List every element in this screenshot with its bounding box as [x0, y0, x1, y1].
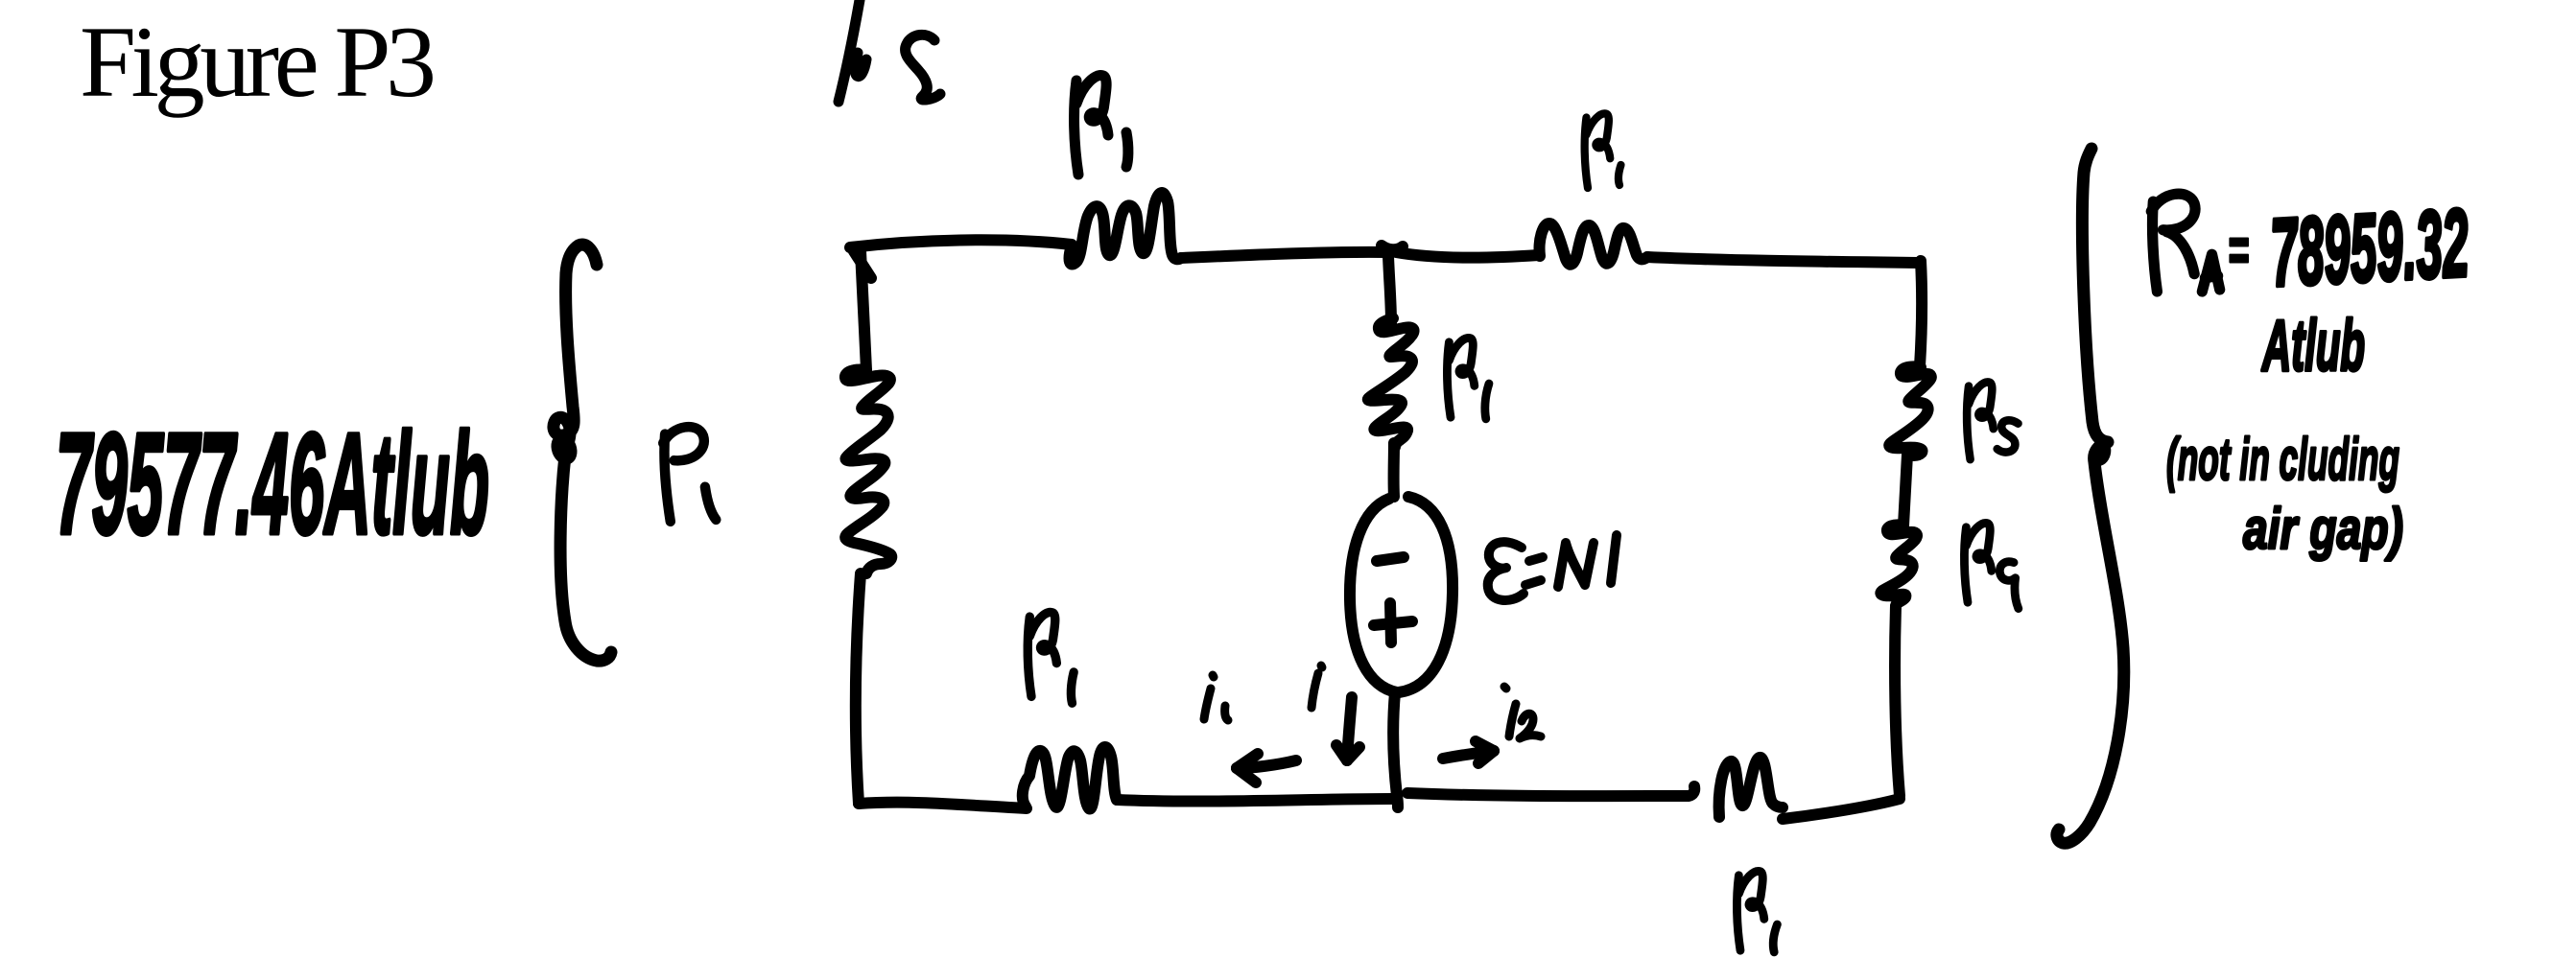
svg-text:(not in cluding: (not in cluding: [2166, 427, 2399, 493]
svg-text:air gap): air gap): [2243, 497, 2403, 561]
svg-text:79577.46Atlub: 79577.46Atlub: [56, 403, 489, 564]
svg-text:Atlub: Atlub: [2261, 305, 2365, 386]
svg-text:78959.32: 78959.32: [2268, 189, 2471, 307]
svg-text:Figure P3: Figure P3: [80, 6, 437, 118]
svg-text:=: =: [2228, 215, 2249, 284]
